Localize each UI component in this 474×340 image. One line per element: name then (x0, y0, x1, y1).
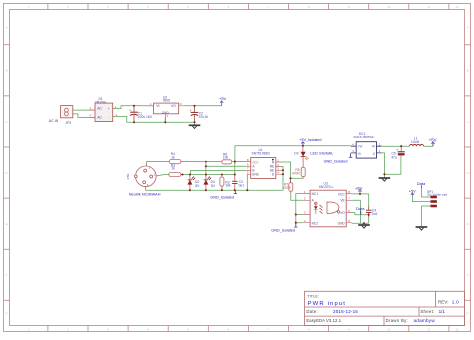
svg-text:LED SIGNAL: LED SIGNAL (310, 151, 334, 156)
svg-text:E: E (6, 222, 8, 226)
svg-text:GND_Isolated: GND_Isolated (324, 159, 348, 163)
svg-text:12: 12 (455, 327, 459, 331)
svg-text:10uH: 10uH (411, 140, 420, 144)
svg-text:JP3: JP3 (65, 121, 71, 125)
svg-text:VE: VE (340, 199, 344, 203)
svg-text:GND: GND (252, 173, 260, 177)
svg-text:Sheet:: Sheet: (420, 309, 434, 314)
svg-text:B: B (467, 69, 469, 73)
svg-text:GND: GND (162, 110, 170, 114)
svg-text:F: F (6, 273, 8, 277)
svg-text:F: F (467, 273, 469, 277)
svg-text:+5V: +5V (219, 96, 227, 101)
svg-text:+5V: +5V (409, 190, 416, 194)
svg-text:-: - (109, 116, 110, 120)
svg-text:Neutrik NC3MAAH: Neutrik NC3MAAH (129, 193, 161, 197)
svg-text:TITLE:: TITLE: (307, 294, 319, 298)
svg-text:11: 11 (427, 5, 430, 9)
svg-text:+: + (129, 109, 131, 113)
svg-text:SN75176BD: SN75176BD (252, 151, 271, 155)
svg-text:1/1: 1/1 (439, 309, 446, 314)
svg-text:REV:: REV: (438, 299, 449, 304)
svg-text:10k: 10k (223, 156, 229, 160)
svg-text:E: E (467, 222, 469, 226)
svg-text:Date:: Date: (306, 309, 318, 314)
svg-text:220u 16V: 220u 16V (138, 115, 153, 119)
svg-text:11: 11 (427, 327, 430, 331)
svg-text:PWR input: PWR input (308, 301, 347, 307)
svg-text:GND: GND (338, 221, 346, 225)
svg-text:+: + (108, 107, 110, 111)
svg-text:+: + (190, 109, 192, 113)
svg-text:+5V: +5V (429, 137, 437, 142)
svg-text:47u: 47u (391, 156, 397, 160)
svg-text:VCC: VCC (338, 192, 345, 196)
svg-text:B: B (6, 69, 8, 73)
svg-text:7805: 7805 (163, 99, 171, 103)
svg-text:NC1: NC1 (312, 192, 319, 196)
svg-text:GND_Isolated: GND_Isolated (210, 196, 234, 200)
svg-text:+5V: +5V (355, 186, 363, 191)
svg-text:AM1S-0505SZ: AM1S-0505SZ (353, 135, 373, 139)
svg-text:Data: Data (417, 181, 426, 186)
svg-text:adambyw: adambyw (414, 318, 436, 323)
svg-text:1.0: 1.0 (452, 299, 459, 304)
svg-text:470R: 470R (283, 186, 292, 190)
svg-text:470R: 470R (292, 171, 301, 175)
svg-text:VO: VO (171, 104, 176, 108)
svg-text:3x1 Solder pad: 3x1 Solder pad (427, 193, 448, 197)
svg-text:Vi: Vi (358, 152, 361, 156)
svg-text:DB154s: DB154s (95, 100, 106, 104)
svg-text:D3: D3 (294, 152, 298, 156)
svg-text:10: 10 (387, 5, 391, 9)
svg-text:NC2: NC2 (312, 221, 319, 225)
svg-text:VO: VO (340, 211, 345, 215)
svg-text:EasyEDA V3.12.1: EasyEDA V3.12.1 (306, 318, 341, 323)
svg-text:GND_Isolated: GND_Isolated (271, 229, 295, 233)
svg-text:AC: AC (97, 116, 102, 120)
svg-text:A: A (467, 26, 469, 30)
svg-text:AC: AC (97, 107, 102, 111)
svg-text:AC IN: AC IN (49, 119, 59, 123)
svg-text:Data: Data (356, 206, 365, 211)
svg-text:12: 12 (455, 5, 459, 9)
svg-text:0u1: 0u1 (239, 183, 245, 187)
svg-text:0u1: 0u1 (372, 212, 378, 216)
svg-text:1k: 1k (171, 155, 175, 159)
svg-text:Drawn By:: Drawn By: (386, 318, 408, 323)
svg-text:10: 10 (387, 327, 391, 331)
svg-text:6N137S-L: 6N137S-L (319, 185, 334, 189)
svg-text:10k: 10k (225, 184, 231, 188)
svg-text:+Vi: +Vi (358, 145, 363, 149)
svg-text:+5V_Isolated: +5V_Isolated (299, 138, 321, 142)
svg-text:2016-12-15: 2016-12-15 (333, 309, 358, 314)
svg-text:1k: 1k (171, 167, 175, 171)
svg-text:A: A (6, 26, 8, 30)
svg-text:CN1: CN1 (126, 173, 130, 179)
svg-text:47u16: 47u16 (199, 115, 208, 119)
svg-text:+: + (396, 148, 398, 152)
svg-text:VI: VI (156, 104, 159, 108)
